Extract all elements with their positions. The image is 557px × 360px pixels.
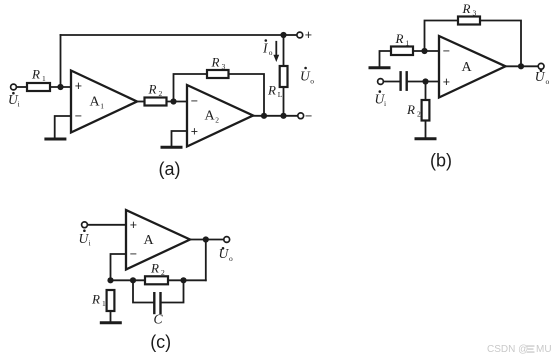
wire A1 output to R2 — [137, 101, 145, 103]
wire plus node to R2 (b) — [425, 82, 427, 101]
resistor R1 (a) — [27, 83, 50, 91]
svg-text:o: o — [310, 76, 314, 85]
ground R1 (c) — [101, 321, 120, 324]
wire feedback left (b) — [425, 21, 459, 52]
svg-text:−: − — [130, 247, 137, 261]
wire R3 to output node (a) — [229, 74, 265, 116]
label RL — [267, 83, 283, 100]
resistor R3 (b) — [458, 17, 480, 25]
op-amp A (c) — [126, 210, 190, 270]
svg-text:+: + — [130, 218, 137, 232]
svg-text:2: 2 — [417, 110, 421, 119]
label U_o (c) — [219, 246, 234, 263]
wire R1 to ground (c) — [110, 311, 112, 321]
wire R1 left to ground (b) — [380, 51, 392, 66]
wire to plus terminal (a) — [284, 34, 297, 36]
svg-text:U: U — [535, 69, 546, 84]
terminal minus output (a) — [298, 113, 304, 119]
wire A1 minus input to ground — [55, 116, 71, 137]
ground A1 — [46, 138, 65, 141]
resistor R2 (c) — [145, 276, 168, 284]
label U_i (b) — [375, 90, 387, 108]
capacitor C (c) — [153, 293, 155, 313]
terminal plus output (a) — [297, 32, 303, 38]
svg-text:i: i — [89, 239, 91, 248]
wire node row right (c) — [168, 279, 206, 281]
svg-text:R: R — [211, 55, 220, 70]
node output (b) — [518, 63, 524, 69]
svg-text:R: R — [150, 260, 159, 275]
svg-text:(a): (a) — [159, 159, 181, 179]
op-amp A (b) — [439, 36, 506, 98]
svg-text:2: 2 — [215, 116, 219, 125]
svg-text:R: R — [148, 82, 157, 97]
wire feedback top horizontal (a) — [61, 34, 284, 36]
svg-text:A: A — [462, 60, 473, 75]
caption (a) — [159, 159, 181, 179]
wire R2 to A2 minus input — [167, 101, 188, 103]
svg-text:o: o — [546, 77, 550, 86]
wire input to A plus (c) — [87, 224, 126, 226]
ground R1 (b) — [370, 66, 389, 69]
ground R2 (b) — [416, 137, 435, 140]
node minus input (b) — [421, 48, 427, 54]
node top right (a) — [280, 32, 286, 38]
svg-text:R: R — [395, 31, 404, 46]
wire cap branch right (c) — [162, 280, 184, 302]
svg-text:CSDN @: CSDN @ — [487, 344, 528, 355]
svg-text:A: A — [144, 233, 155, 248]
resistor R2 (a) — [145, 98, 167, 106]
wire input to R1 (a) — [16, 86, 27, 88]
label I_o — [262, 39, 273, 57]
wire A2 plus input to ground — [172, 131, 188, 146]
svg-text:i: i — [384, 99, 386, 108]
ground A2 — [162, 146, 181, 149]
svg-text:R: R — [406, 102, 415, 117]
svg-text:−: − — [443, 44, 450, 58]
wire feedback right (b) — [480, 21, 521, 67]
terminal output (b) — [538, 63, 544, 69]
svg-text:i: i — [18, 100, 20, 109]
svg-text:+: + — [443, 75, 450, 89]
svg-text:−: − — [191, 94, 198, 108]
svg-text:(b): (b) — [430, 151, 452, 171]
label U_i (a) — [8, 92, 20, 109]
svg-text:1: 1 — [406, 39, 410, 48]
node output (c) — [203, 236, 209, 242]
svg-text:−: − — [75, 109, 82, 123]
terminal input Ui (c) — [82, 222, 88, 228]
wire A minus to left node (c) — [111, 254, 127, 280]
wire R2 to ground (b) — [425, 121, 427, 137]
resistor R2 (b) — [422, 100, 430, 121]
svg-text:C: C — [154, 312, 164, 327]
label R1 (b) — [395, 31, 410, 48]
resistor R1 (b) — [391, 47, 413, 56]
resistor RL — [280, 66, 288, 87]
svg-text:o: o — [269, 48, 273, 57]
label R1 (a) — [31, 67, 46, 84]
svg-text:o: o — [229, 254, 233, 263]
wire output down to row (c) — [205, 240, 207, 281]
svg-text:MU: MU — [536, 344, 552, 355]
label U_o (b) — [535, 69, 550, 86]
svg-text:+: + — [191, 124, 198, 138]
svg-text:R: R — [267, 83, 276, 98]
svg-text:R: R — [31, 67, 40, 82]
svg-text:A: A — [90, 95, 101, 110]
capacitor (b) — [399, 72, 401, 89]
label R2 (a) — [148, 82, 163, 99]
node junction R2 feedback — [170, 98, 176, 104]
caption (b) — [430, 151, 452, 171]
wire feedback vertical (a) — [60, 35, 62, 87]
wire R1 to A minus (b) — [413, 50, 439, 52]
resistor R1 (c) — [107, 290, 115, 311]
wire R1 to A1 + input — [50, 86, 71, 88]
node left (c) — [107, 277, 113, 283]
label R3 (a) — [211, 55, 226, 72]
current arrow Io — [275, 42, 277, 56]
wire node row left (c) — [111, 279, 146, 281]
label U_i (c) — [79, 229, 91, 247]
wire A output (b) — [506, 65, 539, 67]
label R2 (b) — [406, 102, 421, 119]
svg-text:(c): (c) — [150, 332, 171, 352]
svg-text:1: 1 — [42, 74, 46, 83]
svg-text:1: 1 — [100, 102, 104, 111]
svg-text:L: L — [278, 90, 283, 99]
svg-text:R: R — [91, 292, 100, 307]
node junction R1 feedback — [57, 84, 63, 90]
label U_o (a) — [300, 67, 314, 86]
svg-text:3: 3 — [222, 62, 226, 71]
node plus input (b) — [422, 78, 428, 84]
label R3 (b) — [462, 1, 477, 18]
svg-text:2: 2 — [161, 268, 165, 277]
wire input to cap (b) — [383, 81, 399, 83]
wire A output (c) — [190, 239, 224, 241]
node RL output (a) — [280, 113, 286, 119]
label R1 (c) — [91, 292, 106, 309]
node feedback output (a) — [261, 113, 267, 119]
wire feedback up to R3 (a) — [174, 74, 208, 102]
wire cap to A plus (b) — [408, 81, 439, 83]
node R2 right (c) — [180, 277, 186, 283]
op-amp A1 — [71, 71, 137, 133]
terminal output (c) — [224, 237, 230, 243]
resistor R3 (a) — [207, 70, 229, 78]
terminal input Ui (a) — [11, 84, 17, 90]
label R2 (c) — [150, 260, 165, 277]
svg-text:R: R — [462, 1, 471, 16]
node R2 left (c) — [130, 277, 136, 283]
svg-text:U: U — [219, 246, 230, 261]
svg-text:3: 3 — [473, 9, 477, 18]
wire A2 output to minus terminal — [253, 115, 298, 117]
svg-text:1: 1 — [102, 299, 106, 308]
svg-text:A: A — [205, 109, 216, 124]
label C (c) — [154, 312, 164, 327]
svg-text:+: + — [305, 28, 312, 42]
terminal input Ui (b) — [378, 79, 384, 85]
op-amp A2 — [187, 85, 253, 147]
svg-text:2: 2 — [159, 89, 163, 98]
watermark CSDN — [487, 344, 552, 355]
svg-text:+: + — [75, 79, 82, 93]
wire top node down to RL — [283, 35, 285, 66]
caption (c) — [150, 332, 171, 352]
svg-text:−: − — [305, 109, 312, 123]
wire cap branch left (c) — [133, 280, 153, 302]
wire RL to bottom node — [283, 87, 285, 116]
